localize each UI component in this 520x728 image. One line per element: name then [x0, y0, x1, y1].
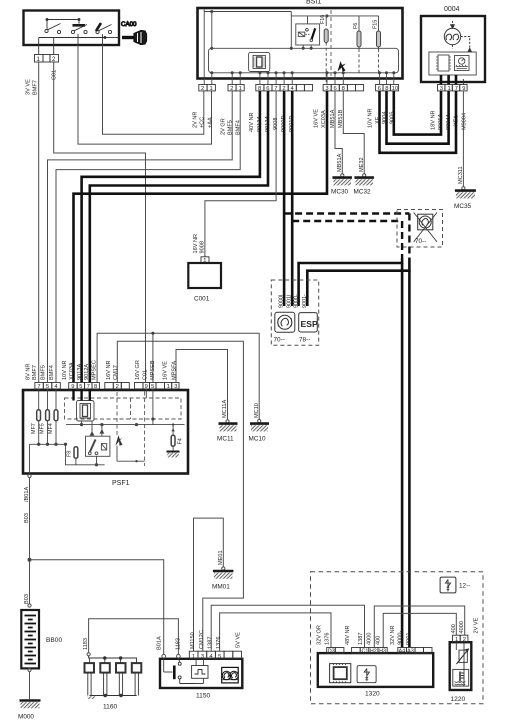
svg-text:C01: C01 [142, 370, 148, 380]
1150 internal switch symbol [164, 658, 196, 684]
wire 9000 branch to ESP [307, 258, 409, 282]
svg-text:A4: A4 [399, 649, 406, 655]
PSF1 arrow symbol [115, 435, 144, 462]
BSI1 internal connector symbol [249, 52, 270, 71]
BSI1 internal relay [296, 16, 320, 50]
svg-text:32V NR: 32V NR [390, 625, 396, 645]
svg-text:1150: 1150 [196, 693, 211, 700]
key symbol CA00 [121, 21, 147, 45]
ground MC32 [354, 178, 374, 196]
wire MB51A (BSI1 pin6 to ground MC30) [335, 91, 344, 177]
svg-text:+CC: +CC [199, 117, 205, 128]
svg-text:PSF1: PSF1 [112, 480, 130, 487]
engine control unit 1320 [318, 653, 433, 697]
svg-text:2V GR: 2V GR [221, 118, 227, 135]
ESP wire stubs into box [284, 282, 307, 307]
0004 gong symbol [444, 21, 471, 52]
svg-text:1183: 1183 [176, 638, 182, 650]
ESP horn pictogram box 70-- [274, 312, 295, 343]
switch contact S1 [45, 19, 79, 34]
wire BMF4 (BSI1 to PSF1 pin4) [56, 91, 240, 383]
svg-text:BMF5: BMF5 [41, 365, 47, 380]
svg-text:+AA: +AA [208, 117, 214, 128]
svg-text:1183: 1183 [83, 638, 89, 650]
switch contact S2 [71, 19, 87, 34]
svg-text:5V VE: 5V VE [236, 632, 242, 648]
svg-text:MC32: MC32 [354, 189, 371, 196]
label 3V VE BMF7 [26, 70, 58, 95]
wire XE (BSI1 pin6 to 0004 pin7) [380, 91, 457, 153]
wire 1376 (1150 pin5 to 1320 pin D3) [220, 613, 331, 651]
PSF1 fuse F4 [171, 423, 183, 451]
svg-text:F15: F15 [373, 20, 379, 29]
svg-text:48V NR: 48V NR [345, 625, 351, 645]
svg-text:18V NR: 18V NR [431, 110, 437, 130]
svg-text:BMF4: BMF4 [49, 365, 55, 380]
svg-text:XC03A: XC03A [69, 362, 75, 380]
1320 labels [317, 625, 413, 645]
svg-text:BB00: BB00 [46, 637, 62, 644]
ESP option dashed box [271, 280, 318, 345]
svg-text:B03: B03 [24, 594, 30, 604]
svg-text:F4: F4 [178, 438, 184, 444]
wire 1387 (1150 pin4 to 1320 pin C1) [211, 605, 364, 651]
svg-text:16V VE: 16V VE [163, 361, 169, 380]
PSF1 fuse F8 [67, 447, 78, 465]
svg-text:2V VE: 2V VE [474, 617, 480, 633]
svg-text:9001-: 9001- [406, 631, 412, 645]
svg-text:16V NR: 16V NR [106, 360, 112, 380]
switch contact S3 [96, 23, 112, 34]
svg-text:12--: 12-- [459, 583, 470, 590]
svg-text:70--: 70-- [274, 337, 285, 344]
wire MPSEC (PSF1 pin8 to ground MC10) [97, 333, 259, 419]
ground MC30 [331, 178, 352, 196]
svg-text:10V NR: 10V NR [62, 360, 68, 380]
svg-text:9012A: 9012A [84, 364, 90, 380]
dashed branch wire 9001 to horn option box [292, 220, 402, 222]
PSF1 pin numbers [37, 384, 177, 390]
svg-text:5: 5 [218, 654, 221, 660]
horn relay unit 1150 [160, 654, 242, 699]
1150 internal relay symbol [192, 659, 208, 684]
svg-text:3: 3 [174, 384, 177, 390]
0004 pin labels [431, 110, 468, 130]
svg-text:1: 1 [167, 384, 170, 390]
BSI1 inner-box pin stubs and dots [211, 72, 395, 85]
option dashed box (anti-theft zone) [311, 572, 484, 704]
PSF1 inner dashed option area [65, 392, 182, 467]
svg-text:8V NR: 8V NR [26, 364, 32, 380]
CA00 internal bottom link wire [39, 34, 119, 45]
PSF1 connector cells [35, 383, 179, 389]
1320 connector cells [327, 648, 432, 655]
svg-text:400: 400 [451, 624, 457, 633]
svg-text:40V NR: 40V NR [249, 112, 255, 132]
svg-text:BMF4: BMF4 [236, 120, 242, 135]
connector C001 [188, 234, 221, 303]
svg-text:9000-: 9000- [293, 294, 299, 308]
1220 labels [451, 617, 480, 633]
svg-text:9000-: 9000- [398, 631, 404, 645]
svg-text:MC11: MC11 [217, 436, 234, 443]
svg-text:MM01: MM01 [212, 584, 230, 591]
ground M000 [18, 701, 41, 721]
svg-text:9001-: 9001- [302, 294, 308, 308]
fuse box PSF1 [23, 390, 188, 487]
svg-text:ME32: ME32 [359, 157, 365, 172]
PSF1 relay [86, 430, 110, 466]
svg-text:ESP: ESP [301, 319, 318, 329]
horn option dashed box 70- [397, 210, 443, 248]
dashed vertical 9001 through 70- box [401, 221, 403, 258]
fuse carrier 1160 [103, 704, 118, 711]
wire M1150 (1150 pin1 to ground MM01) [194, 518, 225, 651]
svg-text:8: 8 [94, 384, 97, 390]
svg-text:4000: 4000 [459, 621, 465, 633]
fuse F16 [320, 15, 328, 85]
PSF1 maxi fuse MF4 [48, 389, 58, 444]
PSF1 maxi fuse MF5 [40, 389, 50, 444]
battery BB00 [21, 610, 62, 668]
wire 400 (1320 pin H3 to 1220 pin1) [383, 613, 456, 647]
wire 9012A (BSI1 pin6 to PSF1 pin7) [90, 91, 268, 383]
wire 9001- down to unit 1320 [401, 263, 404, 648]
wire B01A (junction to 1150 pin) [30, 560, 164, 654]
svg-text:3V VE: 3V VE [26, 79, 32, 95]
ESP wire labels [279, 294, 308, 308]
svg-text:2V NR: 2V NR [193, 112, 199, 128]
wire MB51B (BSI1 pin8 to ground MC32) [343, 91, 366, 177]
svg-text:C001: C001 [194, 296, 210, 303]
ground MC10 wire end [254, 403, 261, 423]
wire 9004 (BSI1 pin8 to 0004 pin1) [387, 91, 449, 144]
svg-text:F16: F16 [320, 15, 326, 24]
svg-text:9001I: 9001I [287, 295, 293, 309]
svg-text:32V OR: 32V OR [317, 625, 323, 645]
ground MC11 [217, 424, 238, 443]
wire 9001D (BSI1 pin4 down to ESP unit) [291, 91, 294, 282]
svg-text:1387: 1387 [208, 637, 214, 649]
1320 internal IC symbol [330, 664, 351, 683]
svg-text:C01: C01 [52, 70, 58, 80]
svg-text:MF4: MF4 [48, 423, 54, 434]
ground MC35 [454, 191, 476, 210]
svg-text:1220: 1220 [451, 696, 466, 703]
svg-text:MF7: MF7 [31, 423, 37, 434]
svg-text:1320: 1320 [365, 691, 380, 698]
svg-text:MPSEC: MPSEC [92, 360, 98, 380]
wire +AA (CA00 S2 to BSI1) [78, 45, 212, 144]
svg-text:M9004: M9004 [462, 113, 468, 130]
ignition switch unit CA00 [24, 11, 120, 46]
wire 9001 branch to ESP [299, 258, 403, 282]
svg-text:M1150: M1150 [190, 632, 196, 649]
PSF1 internal bus and nodes [30, 389, 185, 475]
wire 9013A (BSI1 pin8 to PSF1 pin5) [82, 91, 260, 383]
1150 internal horn symbol [222, 667, 239, 683]
wire B01A/B03 from PSF1 to battery [24, 474, 31, 607]
svg-text:A3: A3 [407, 649, 414, 655]
svg-text:2: 2 [201, 86, 204, 92]
svg-text:F6: F6 [353, 23, 359, 29]
1160 fuse group [85, 656, 142, 699]
node MPSEB junction [151, 332, 154, 335]
1220 thermometer pictogram [453, 669, 469, 686]
0004 connector cells [438, 75, 468, 91]
BSI1 internal arrow symbol [338, 61, 346, 72]
svg-text:1: 1 [239, 86, 242, 92]
pictogram box 12-- [440, 577, 470, 593]
svg-text:MC311: MC311 [458, 166, 464, 184]
svg-text:MC35: MC35 [454, 203, 471, 210]
svg-text:0004: 0004 [444, 6, 460, 13]
BSI1 internal top rail [204, 10, 378, 85]
svg-text:MF5: MF5 [40, 423, 46, 434]
control unit BSI1 [198, 0, 403, 79]
svg-text:1: 1 [192, 654, 195, 660]
svg-text:CA00: CA00 [121, 21, 137, 28]
wire C01 (CA00 pin2 to PSF1 pin9) [54, 62, 146, 383]
wire 9000D (BSI1 pin2 down to ESP unit) [283, 91, 286, 282]
dashed vertical 9000 through 70- box [408, 214, 410, 259]
svg-text:16V VE: 16V VE [314, 109, 320, 128]
svg-text:2: 2 [230, 86, 233, 92]
svg-text:1: 1 [210, 86, 213, 92]
svg-text:CM12C: CM12C [199, 630, 205, 649]
dashed branch wire 9000 to horn option box [284, 212, 409, 214]
wire 9005 (BSI1 pin10 to 0004 pin3) [394, 91, 441, 135]
wire BMF7 (CA00 pin1 to PSF1 pin7) [38, 62, 40, 383]
BSI1 pin numbers [201, 86, 398, 92]
svg-text:BSI1: BSI1 [306, 0, 321, 6]
svg-text:1376: 1376 [324, 633, 330, 645]
svg-text:70--: 70-- [415, 238, 426, 245]
BSI1 connector cells row [199, 85, 399, 91]
ground MC10 [249, 424, 270, 443]
wire 9000- down to unit 1320 [408, 271, 411, 648]
svg-text:78--: 78-- [299, 337, 310, 344]
coolant temp sensor 1220 [450, 642, 472, 703]
BSI1 pin wire labels [193, 108, 396, 135]
wire 9008 (BSI1 pin7 to connector C001) [205, 91, 276, 257]
svg-text:MPSFA: MPSFA [172, 361, 178, 380]
wire 4000 (1320 pin H2 to 1220 pin2) [374, 606, 464, 648]
svg-text:D3: D3 [328, 649, 335, 655]
svg-text:16V NR: 16V NR [193, 234, 199, 254]
svg-text:MC11A: MC11A [222, 399, 228, 418]
wire battery to ground M000 [28, 668, 31, 699]
svg-text:MPSEB: MPSEB [150, 360, 156, 380]
svg-text:9000I: 9000I [279, 295, 285, 309]
svg-text:MC10: MC10 [254, 403, 260, 418]
svg-text:4000: 4000 [367, 633, 373, 645]
PSF1 pin labels [26, 360, 178, 380]
svg-text:H3: H3 [379, 649, 386, 655]
PSF1 internal connector symbol [77, 401, 95, 422]
svg-text:BMF5: BMF5 [228, 120, 234, 135]
wire XC03A (BSI1 pin3 16V VE to PSF1 pin9) [74, 91, 328, 383]
wire CM17 (PSF1 pin2 to 1150 pin3) [117, 341, 243, 651]
svg-text:9013A: 9013A [77, 364, 83, 380]
svg-text:ME01: ME01 [218, 550, 224, 565]
wire M9004 / MC311 to ground MC35 [458, 91, 465, 190]
svg-text:1387: 1387 [358, 633, 364, 645]
svg-text:MB51A: MB51A [337, 153, 343, 172]
crossed-out horn symbol in 70- box [414, 213, 437, 246]
ESP pictogram box 78-- [299, 313, 318, 344]
svg-text:F8: F8 [67, 451, 73, 457]
svg-text:BMF7: BMF7 [32, 365, 38, 380]
svg-text:1376: 1376 [216, 637, 222, 649]
wire MPSEB (junction to PSF1 pin5) [152, 333, 154, 382]
svg-text:1160: 1160 [103, 704, 118, 711]
ground MM01 [212, 571, 233, 591]
svg-text:BMF7: BMF7 [33, 80, 39, 95]
wire +CC (CA00 S3 to BSI1) [103, 45, 204, 134]
wire MPSFA (PSF1 pin3 to ground MC11) [176, 350, 229, 423]
svg-text:MC30: MC30 [331, 189, 348, 196]
svg-text:H2: H2 [370, 649, 377, 655]
svg-text:MC10: MC10 [249, 436, 266, 443]
svg-text:B01A: B01A [156, 636, 162, 650]
svg-text:CM17: CM17 [113, 365, 119, 380]
PSF1 maxi fuse MF7 [31, 389, 41, 444]
PSF1 internal ground [167, 452, 180, 458]
wire BMF5 (BSI1 to PSF1 pin5) [48, 91, 233, 383]
svg-text:/B01A: /B01A [24, 486, 30, 502]
svg-text:C1: C1 [362, 649, 369, 655]
svg-text:B03: B03 [24, 513, 30, 523]
fuse F6 [353, 16, 361, 73]
0004 internal module box [429, 52, 476, 75]
1150 connector cells [189, 651, 241, 660]
svg-text:M000: M000 [18, 714, 34, 721]
1220 thermistor symbol [456, 642, 468, 686]
svg-text:2: 2 [116, 384, 119, 390]
connector C1 pins 1,2 under CA00 [35, 45, 59, 63]
1220 connector cells [453, 635, 468, 643]
BSI1 internal dashed separators [330, 10, 332, 76]
fuse F15 [373, 16, 381, 73]
svg-text:400: 400 [376, 636, 382, 645]
svg-text:16V GR: 16V GR [135, 360, 141, 380]
svg-text:10V NR: 10V NR [368, 108, 374, 128]
svg-text:9008: 9008 [200, 241, 206, 253]
wire 1183 (1160 to 1150) [83, 619, 178, 656]
1150 labels [156, 630, 241, 650]
instrument cluster 0004 [421, 6, 485, 82]
1320 internal pictogram [357, 666, 376, 683]
